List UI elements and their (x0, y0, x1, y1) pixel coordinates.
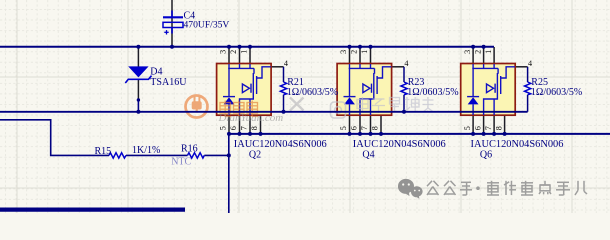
svg-text:D4: D4 (150, 67, 162, 78)
svg-text:DianYuan.com: DianYuan.com (218, 112, 284, 124)
svg-text:Q2: Q2 (249, 150, 261, 161)
svg-text:1Ω/0603/5%: 1Ω/0603/5% (531, 87, 582, 98)
svg-text:1Ω/0603/5%: 1Ω/0603/5% (287, 87, 338, 98)
svg-text:IAUC120N04S6N006: IAUC120N04S6N006 (234, 139, 327, 150)
svg-text:R16: R16 (181, 144, 198, 155)
svg-text:Q4: Q4 (362, 150, 374, 161)
svg-text:NTC: NTC (171, 157, 191, 168)
svg-text:1Ω/0603/5%: 1Ω/0603/5% (407, 87, 458, 98)
svg-text:TSA16U: TSA16U (150, 77, 187, 88)
svg-text:1K/1%: 1K/1% (132, 145, 160, 156)
svg-text:Q6: Q6 (480, 150, 492, 161)
svg-text:R15: R15 (95, 146, 112, 157)
svg-text:IAUC120N04S6N006: IAUC120N04S6N006 (471, 139, 564, 150)
svg-text:IAUC120N04S6N006: IAUC120N04S6N006 (353, 139, 446, 150)
svg-text:470UF/35V: 470UF/35V (184, 20, 230, 31)
